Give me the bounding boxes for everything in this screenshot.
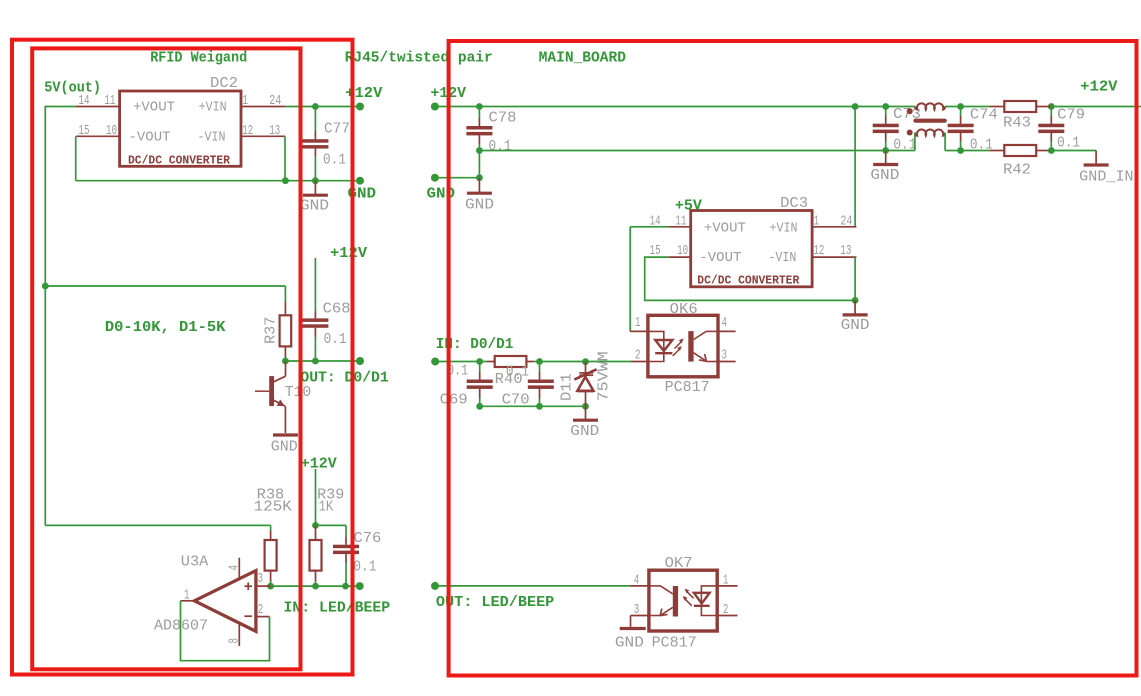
node C69 top junction [476,358,483,365]
optocoupler OK6 box [648,315,718,377]
svg-text:1: 1 [723,574,729,589]
svg-text:-VIN: -VIN [198,131,226,146]
node C73 bottom junction [882,147,889,154]
svg-text:OK7: OK7 [665,555,693,572]
svg-text:GND: GND [870,167,899,184]
svg-text:+VIN: +VIN [770,222,798,237]
wire DC3 -VOUT loop [645,257,855,300]
supply +12V flag (main left) [431,103,439,111]
node C79 bottom junction [1048,147,1055,154]
svg-text:13: 13 [269,124,280,139]
R39 bottom lead [315,571,317,581]
node C78 gnd junction [476,174,483,181]
R43 left lead [990,106,1004,108]
wire +12V rail right part [1051,106,1141,108]
transistor T10 base bar [269,376,274,406]
zener D11 bottom lead [585,392,587,406]
U3A pin 3 lead [256,585,271,587]
OK7 light arrows [684,598,692,606]
wire +12V rail mid part [945,106,990,108]
svg-text:R42: R42 [1003,162,1031,179]
U3A pin 1 lead [181,600,195,602]
resistor R42 [1004,145,1036,156]
ground symbol below D11 [585,406,587,420]
node C73 top junction [882,103,889,110]
svg-text:4: 4 [634,574,640,589]
wire IN row left [435,361,487,363]
OK7 pin 3 lead [631,615,649,617]
zener D11 triangle [577,377,593,391]
capacitor C76 [333,545,359,549]
OK7 phototransistor bar [673,586,678,617]
wire DC3 +VOUT to OK6 [630,226,668,228]
svg-text:4: 4 [228,565,243,571]
svg-text:C78: C78 [489,110,517,127]
svg-text:0.1: 0.1 [323,152,346,169]
wire IN: LED/BEEP row [271,585,360,587]
svg-text:C76: C76 [353,530,381,547]
svg-text:+12V: +12V [330,245,367,262]
svg-text:GND: GND [271,439,298,456]
capacitor C77 [302,139,328,143]
svg-text:+VOUT: +VOUT [133,101,175,116]
svg-text:+VIN: +VIN [199,101,227,116]
ground symbol below C77 [314,181,316,196]
svg-text:C69: C69 [440,392,468,409]
svg-text:0.1: 0.1 [893,136,916,153]
node C74 top junction [957,103,964,110]
svg-text:1: 1 [243,94,249,109]
svg-text:+VOUT: +VOUT [704,222,746,237]
svg-text:0.1: 0.1 [353,559,376,576]
capacitor C79 leads [1050,107,1052,117]
svg-text:1K: 1K [319,499,334,516]
node C69 bottom junction [476,403,483,410]
ground symbol below T10 [273,433,298,436]
zener D11 cathode bars [579,372,593,374]
OK6 pin 3 lead [718,361,736,363]
svg-text:PC817: PC817 [665,379,710,396]
svg-text:1: 1 [814,215,820,230]
C68 bottom lead [314,328,316,337]
OK7 gnd symbol [630,616,632,627]
dc-dc converter DC2 box [120,91,241,166]
supply GND flag (main left) [431,174,439,182]
node C76 junction [342,583,349,590]
svg-text:0.1: 0.1 [324,331,347,348]
svg-text:75VWM: 75VWM [596,351,613,401]
inductor L1 top winding [915,103,945,109]
capacitor C77 leads [314,107,316,132]
OK7 led [694,593,710,604]
resistor R37 [280,315,292,346]
op-amp minus sign [244,615,252,617]
wire to GND_IN [1051,150,1096,152]
dc-dc converter DC3 box [691,211,812,287]
svg-text:+5V: +5V [675,198,702,215]
DC2 pin -VIN [241,135,285,137]
OK6 internal led wiring [648,331,664,353]
DC2 pin +VOUT [76,106,120,108]
capacitor C78 [466,126,492,130]
node C77 bottom junction [312,177,319,184]
ground symbol below DC3 [854,300,856,315]
supply +12V flag (RFID) [356,103,364,111]
wire gnd return row right [945,150,990,152]
node C70 bottom junction [536,403,543,410]
R40 right lead [526,361,533,363]
net flag IN: LED/BEEP [356,582,364,590]
wire +12V rail left part [435,106,915,108]
svg-text:10: 10 [106,124,117,139]
DC3 pin -VOUT [668,256,690,258]
node DC3 +VIN junction [852,103,859,110]
svg-text:DC/DC CONVERTER: DC/DC CONVERTER [128,154,230,167]
R42 right lead [1036,150,1051,152]
OK6 pin 4 lead [718,330,736,332]
wire IN row mid [533,361,631,363]
svg-text:12: 12 [813,244,824,259]
frame inner left (red) [32,48,300,669]
svg-text:24: 24 [269,94,281,109]
capacitor C69 [467,380,493,384]
capacitor C73 [873,124,899,128]
svg-text:R37: R37 [263,317,280,344]
wire gnd bottom row [480,405,586,407]
wire RFID gnd row [76,180,360,182]
transistor T10 base lead [255,390,269,392]
svg-text:T10: T10 [285,384,312,401]
svg-text:DC3: DC3 [780,195,808,212]
svg-text:RFID Weigand: RFID Weigand [150,50,247,67]
node C74 bottom junction [957,147,964,154]
capacitor C69 leads [479,362,481,373]
op-amp plus sign [244,585,252,587]
U3A pin 4 lead [238,558,240,579]
wire to R37 [45,285,285,287]
wire DC2 +VIN to +12V [285,106,360,108]
svg-text:C77: C77 [324,121,350,138]
wire R39 to C76 top [316,524,347,526]
wire U3A feedback loop [181,601,270,661]
node R37-T10 junction [282,358,289,365]
svg-text:+12V: +12V [1080,79,1117,96]
svg-text:2: 2 [635,349,641,364]
capacitor C74 leads [960,107,962,117]
svg-text:3: 3 [634,603,640,618]
R42 left lead [990,150,1004,152]
supply GND flag (RFID) [356,177,364,185]
svg-text:0.1: 0.1 [506,364,529,381]
node C70 top junction [536,358,543,365]
ground symbol below C73 [885,151,887,165]
DC3 pin +VOUT [668,226,690,228]
node C79 top junction [1048,103,1055,110]
capacitor C70 [528,380,554,384]
svg-text:3: 3 [722,349,728,364]
svg-text:MAIN_BOARD: MAIN_BOARD [539,50,626,67]
OK7 pin 1 lead [717,585,737,587]
frame main board (red) [449,41,1137,676]
optocoupler OK7 box [649,570,717,631]
OK6 phototransistor collector [694,331,707,339]
R37 bottom lead [284,346,286,361]
wire gnd flag row [435,177,480,179]
svg-text:GND: GND [570,423,599,440]
frame outer left (red) [12,40,353,675]
wire OUT row [435,585,631,587]
inductor L1 core [916,119,945,123]
svg-text:C79: C79 [1057,106,1085,123]
capacitor C78 leads [478,107,480,119]
node D11 bottom junction [582,403,589,410]
svg-text:11: 11 [676,215,687,230]
inductor bottom winding stubs [914,133,916,151]
OK6 pin 2 lead [631,361,648,363]
svg-text:+12V: +12V [301,456,337,473]
capacitor C79 [1038,124,1064,128]
OK7 phototransistor collector [649,585,661,587]
R37 top lead [284,302,286,315]
svg-text:GND: GND [841,317,870,334]
wire +12V to R39 [315,469,317,525]
svg-text:13: 13 [840,244,851,259]
GND_IN symbol [1095,151,1097,164]
wire DC2 -VIN down [284,136,286,180]
svg-text:OUT: LED/BEEP: OUT: LED/BEEP [436,594,554,611]
op-amp U3A triangle [194,571,256,632]
svg-text:GND: GND [427,186,456,203]
node D11 top junction [582,358,589,365]
svg-text:C68: C68 [323,301,351,318]
capacitor C68 [302,318,328,322]
svg-text:OUT: D0/D1: OUT: D0/D1 [300,370,388,387]
net flag IN: D0/D1 [431,358,439,366]
svg-text:4: 4 [722,316,728,331]
svg-text:D11: D11 [558,373,575,401]
svg-text:-VOUT: -VOUT [129,131,171,146]
R39 top lead [315,525,317,540]
OK7 pin 4 lead [631,585,649,587]
wire 5V(out) to DC2 +VOUT pin [45,106,76,108]
svg-text:RJ45/twisted pair: RJ45/twisted pair [345,50,493,67]
capacitor C70 leads [539,362,541,373]
svg-text:8: 8 [228,638,243,644]
node R38 junction [267,583,274,590]
capacitor C73 leads [885,107,887,117]
OK6 phototransistor emitter [694,353,707,361]
R38 top lead [270,531,272,540]
svg-text:10: 10 [677,244,688,259]
wire gnd return row [479,150,915,152]
svg-text:GND: GND [615,634,644,651]
svg-text:U3A: U3A [181,554,209,571]
wire rail to DC3 +VIN [854,107,856,227]
svg-text:DC2: DC2 [210,75,238,92]
svg-text:15: 15 [79,124,90,139]
C76 top lead [345,525,347,537]
node C68 junction [312,358,319,365]
inductor L1 bottom winding [915,129,945,135]
svg-text:0.1: 0.1 [970,136,993,153]
wire DC3 -VIN down [854,257,856,300]
wire OUT: D0/D1 row [285,360,360,362]
svg-text:14: 14 [79,94,90,109]
R38 bottom lead [270,571,272,581]
wire DC2 -VOUT down [75,136,77,180]
svg-text:GND_IN: GND_IN [1079,169,1133,186]
svg-text:GND: GND [465,197,494,214]
svg-text:24: 24 [840,215,852,230]
capacitor C74 [948,124,974,128]
svg-text:C74: C74 [970,106,998,123]
svg-text:PC817: PC817 [652,634,697,651]
DC3 pin +VIN [812,226,857,228]
svg-text:3: 3 [258,572,264,587]
svg-text:11: 11 [104,94,115,109]
U3A pin 8 lead [238,623,240,646]
T10 emitter lead [284,406,286,433]
zener D11 top lead [585,362,587,373]
wire +12V to C68 [314,258,316,311]
node R39 top junction [312,522,319,529]
wire 5V(out) vertical bus [44,106,46,526]
svg-text:0.1: 0.1 [489,138,512,155]
svg-text:-VIN: -VIN [768,251,796,266]
zener D11 slash [574,369,596,379]
svg-text:2: 2 [258,603,264,618]
DC2 pin +VIN [241,106,285,108]
DC2 pin -VOUT [76,135,120,137]
R40 left lead [487,361,495,363]
svg-text:12: 12 [242,124,253,139]
node C78 mid junction [476,147,483,154]
svg-text:5V(out): 5V(out) [44,80,101,97]
svg-text:125K: 125K [254,499,292,516]
resistor R40 [495,356,527,367]
resistor R38 [265,540,277,571]
C76 bottom lead [345,554,347,563]
node DC3 gnd junction [852,297,859,304]
OK7 pin 2 lead [717,615,737,617]
inductor L1 polarity dots [907,108,913,114]
svg-text:-VOUT: -VOUT [699,251,741,266]
net flag OUT: LED/BEEP [431,582,439,590]
svg-text:1: 1 [184,589,190,604]
transistor T10 emitter [274,400,286,406]
svg-text:R43: R43 [1003,115,1031,132]
DC3 pin -VIN [812,256,857,258]
OK7 internal led wiring [701,586,717,606]
net flag OUT: D0/D1 [356,357,364,365]
R43 right lead [1036,106,1051,108]
U3A pin 2 lead [256,616,270,618]
resistor R39 [310,540,322,571]
wire 5V bus to R38 [45,524,270,526]
resistor R43 [1004,101,1036,112]
OK6 light arrows [675,341,683,349]
node C77 top junction [312,103,319,110]
node 5V junction [42,283,49,290]
ground symbol below C78 [478,178,480,194]
OK7 phototransistor emitter [661,607,673,615]
OK6 led [655,340,672,351]
svg-text:1: 1 [635,316,641,331]
node C78 top junction [476,103,483,110]
svg-text:D0-10K, D1-5K: D0-10K, D1-5K [105,319,225,336]
svg-text:0.1: 0.1 [1057,135,1080,152]
svg-text:DC/DC CONVERTER: DC/DC CONVERTER [697,274,799,287]
OK6 phototransistor bar [688,331,693,362]
svg-text:OK6: OK6 [670,301,698,318]
node R39 junction [312,583,319,590]
transistor T10 collector [285,361,287,376]
node -VIN gnd junction [282,177,289,184]
svg-text:2: 2 [723,603,729,618]
svg-text:GND: GND [300,198,329,215]
OK6 pin 1 lead [630,330,648,332]
